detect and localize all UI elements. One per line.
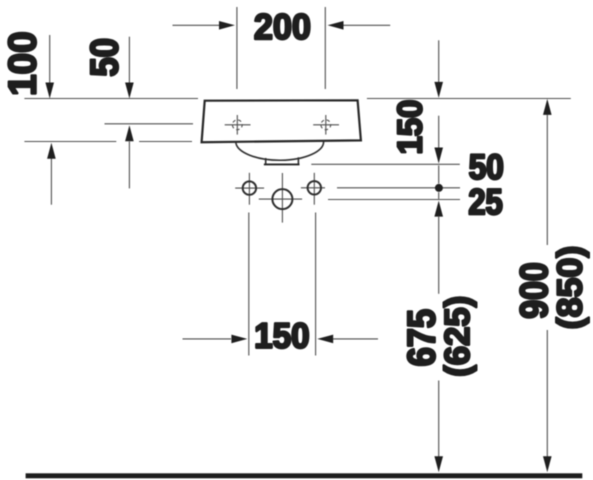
basin outline — [202, 100, 361, 142]
dim 25 up arrow / start of 675 line — [434, 201, 443, 294]
dim 900: bottom shaft + floor arrow — [543, 330, 552, 472]
fixing hole crosshair left — [225, 115, 251, 135]
dim 900: top up arrow — [543, 99, 552, 245]
middle hole circle — [259, 173, 302, 223]
label 150 (right, rotated) — [397, 101, 422, 152]
dim arrow bottom 150 right — [317, 335, 378, 344]
label (625) (rotated) — [444, 298, 477, 376]
dim arrow 200 right — [328, 21, 391, 30]
extension line 200 right — [324, 7, 326, 89]
small hole circle left — [235, 173, 264, 205]
drain left edge — [265, 158, 267, 165]
label 150 (bottom) — [256, 323, 308, 348]
dim arrow 100 down — [45, 35, 54, 99]
dim arrow 50 down — [125, 37, 134, 99]
fixing hole crosshair right — [313, 115, 339, 135]
drain right edge — [297, 157, 299, 165]
extension line bottom 150 right — [315, 213, 317, 356]
label 675 (rotated) — [408, 310, 436, 365]
extension line 200 left — [236, 7, 238, 89]
dim line segment below drain line — [438, 166, 440, 184]
dim 150 right: lower down arrow — [434, 116, 443, 164]
wire: top rim reference line right — [367, 98, 571, 100]
wire: small holes level line — [337, 187, 460, 189]
dim arrow bottom 150 left — [183, 335, 248, 344]
dim arrow 50 up — [125, 125, 134, 188]
label 50 (left, rotated) — [90, 40, 118, 76]
basin bowl arc — [236, 141, 324, 160]
extension line bottom 150 left — [248, 213, 250, 356]
wire: top rim reference line left — [24, 98, 198, 100]
wire: drain bottom level line — [311, 163, 460, 165]
wire: basin bottom level line right part — [139, 141, 192, 143]
wire: middle hole level line — [328, 199, 460, 201]
small hole circle right — [301, 173, 325, 205]
drain bottom edge — [264, 163, 300, 165]
label 200 (top) — [255, 14, 309, 40]
wire: basin bottom level line left part — [24, 141, 116, 143]
label 100 (left, rotated) — [8, 33, 36, 94]
dim arrow 200 left — [173, 21, 235, 30]
dot terminator on 50/25 — [435, 184, 443, 192]
floor line — [26, 473, 583, 478]
label 50 (right) — [470, 154, 503, 179]
label (850) (rotated) — [556, 248, 589, 328]
wire: fixing hole level line left — [105, 123, 194, 125]
label 25 (right) — [470, 189, 502, 215]
dim line segment dot to 25 line — [438, 192, 440, 199]
label 900 (rotated) — [520, 264, 548, 318]
dim 675 lower shaft + floor arrow — [434, 381, 443, 473]
dim arrow 100 up — [47, 143, 56, 205]
dim 150 right: upper down arrow — [434, 40, 443, 98]
